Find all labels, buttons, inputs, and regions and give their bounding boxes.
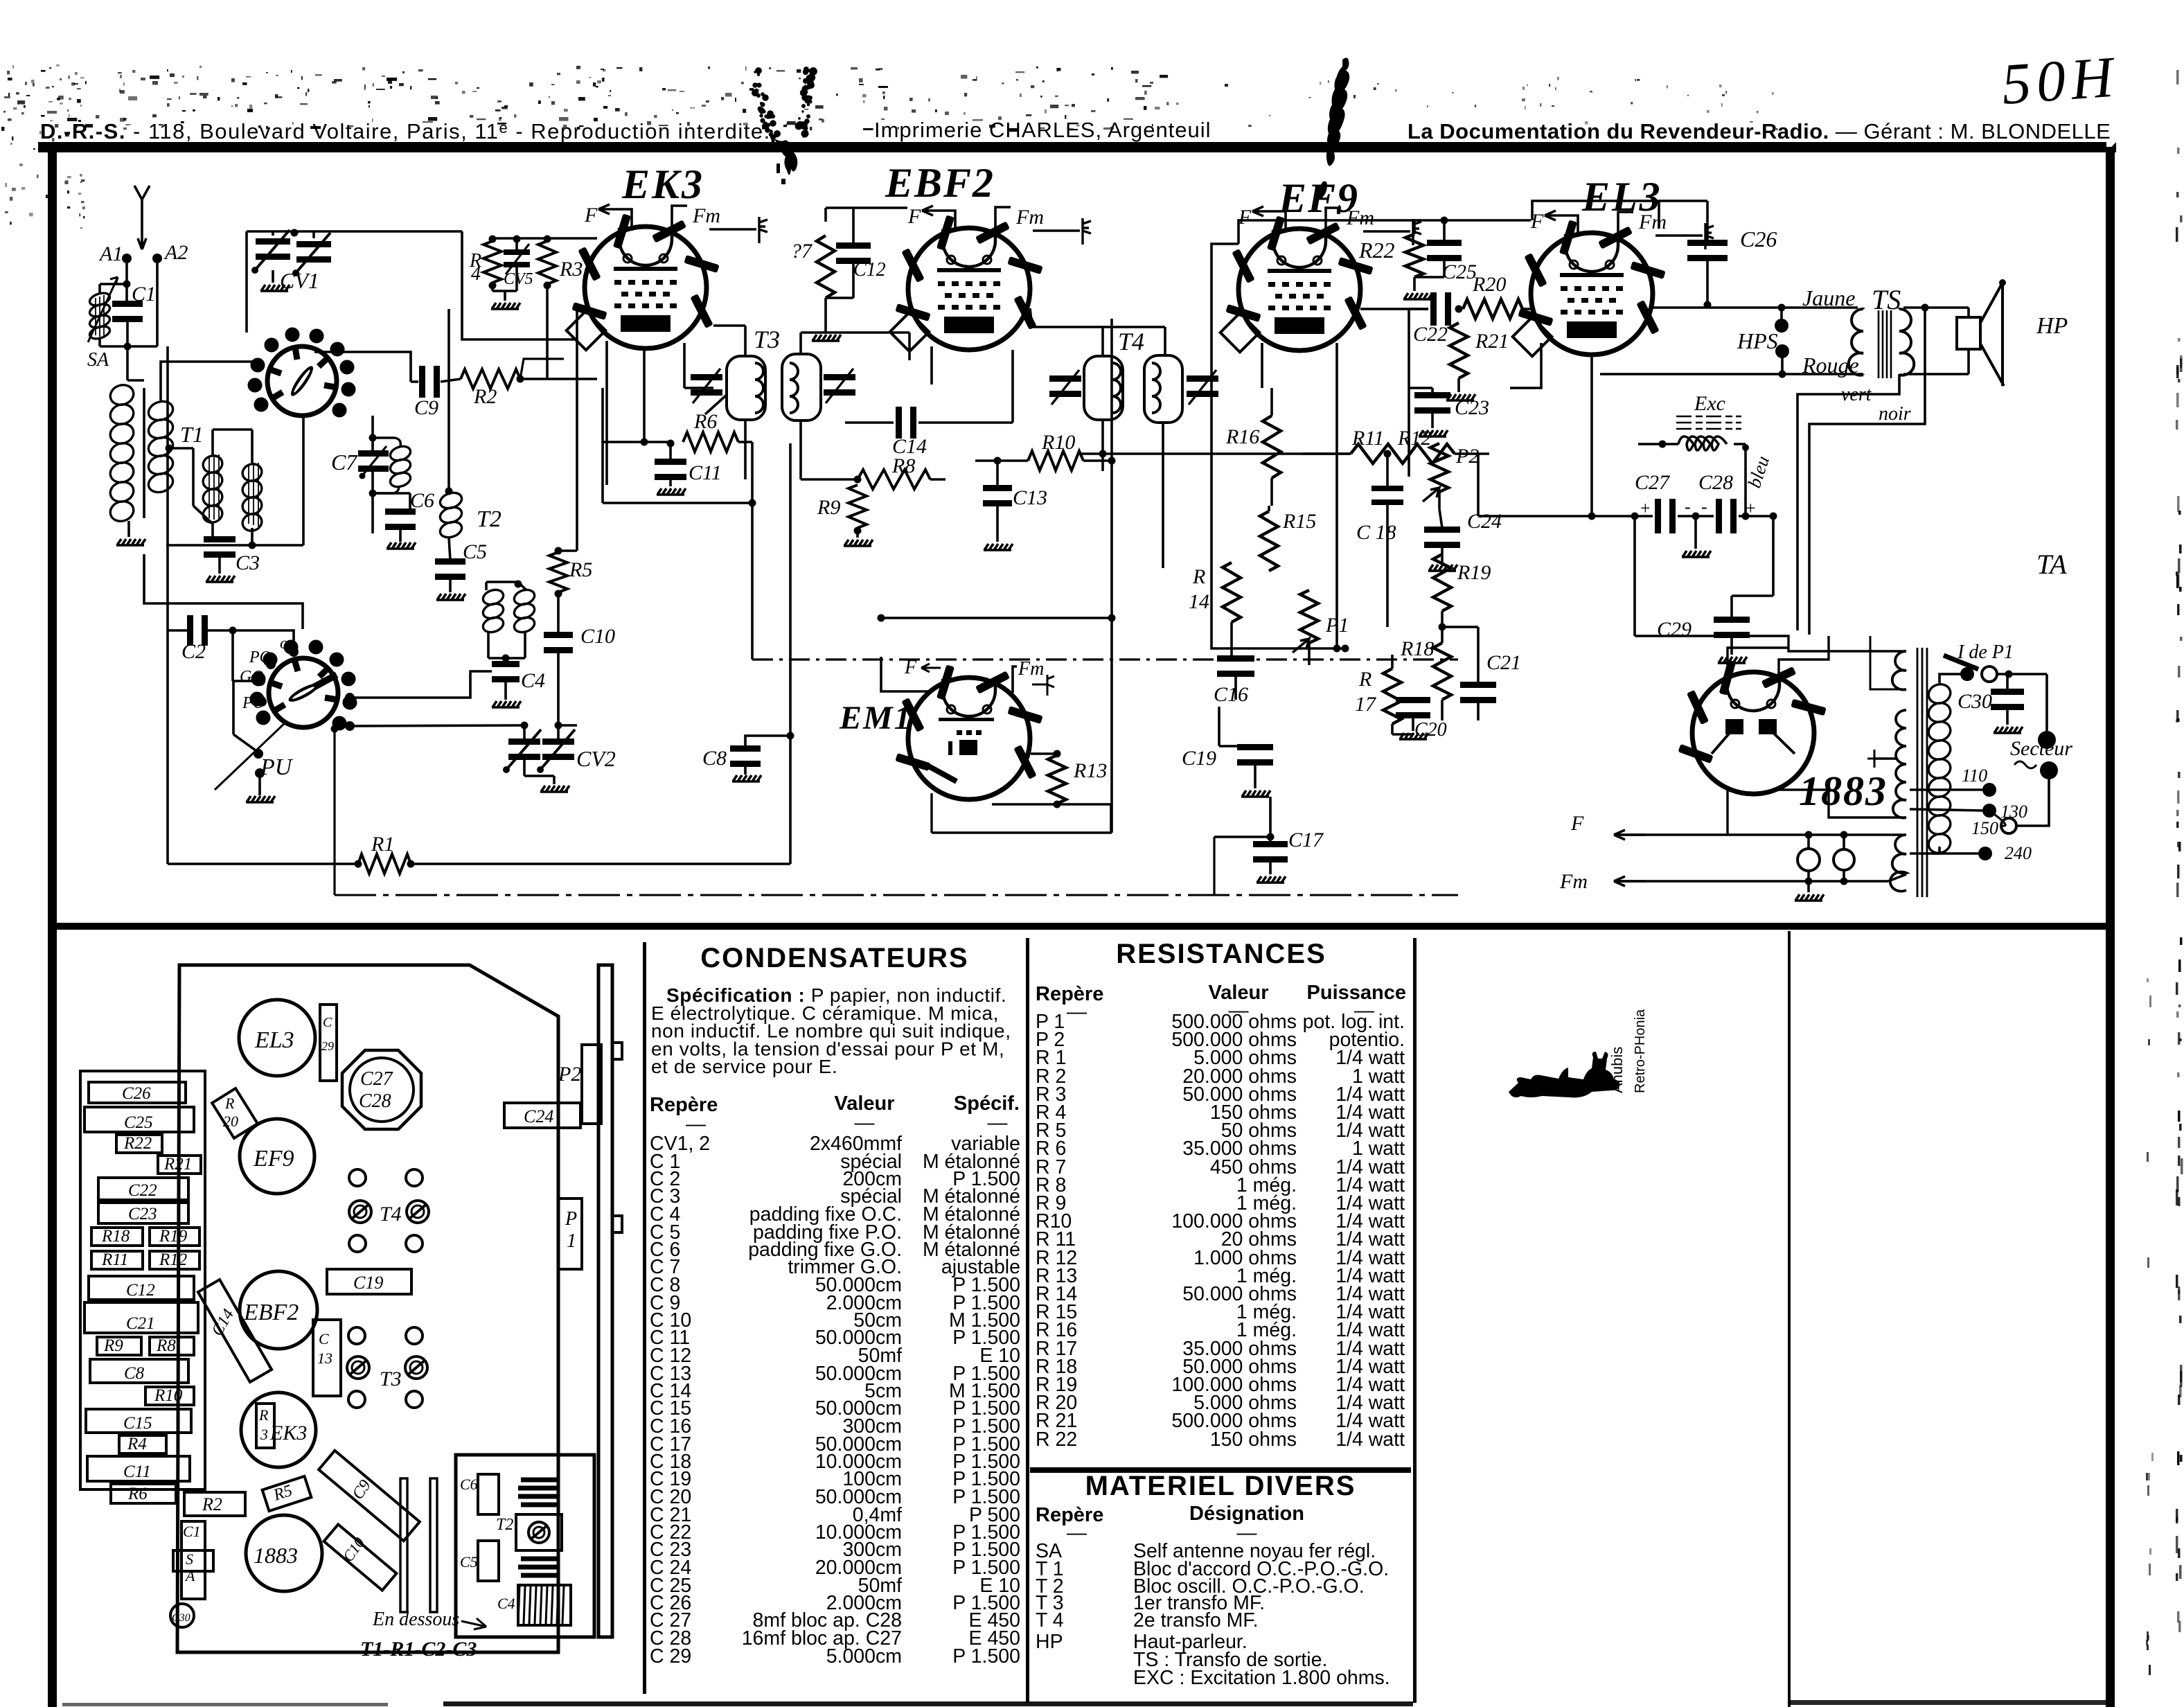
wire Fm bracket	[672, 206, 687, 233]
antenna	[134, 186, 150, 249]
svg-text:Fm: Fm	[1346, 206, 1374, 229]
tube EF9 (U3)	[1220, 215, 1374, 352]
chassis part C26	[89, 1082, 186, 1103]
svg-text:R5: R5	[569, 558, 592, 581]
wire EK3 cathode down	[643, 348, 646, 442]
svg-text:1883: 1883	[1799, 768, 1888, 814]
chassis part C21	[85, 1302, 198, 1333]
svg-text:P2: P2	[558, 1063, 581, 1086]
wire R22 C25	[1413, 220, 1416, 234]
svg-text:RESISTANCES: RESISTANCES	[1116, 939, 1326, 969]
wire y871 loop	[144, 554, 303, 629]
chassis part R9	[97, 1337, 141, 1355]
svg-text:A2: A2	[163, 241, 188, 264]
wire EM1 F	[881, 657, 930, 691]
chassis part R4	[119, 1435, 166, 1453]
svg-text:EBF2: EBF2	[885, 160, 995, 206]
svg-text:R: R	[1358, 668, 1371, 691]
field coil Exc core	[1676, 416, 1741, 429]
svg-text:20: 20	[223, 1113, 238, 1130]
frame top rule	[38, 142, 2116, 152]
svg-text:C: C	[323, 1015, 332, 1030]
table divider line 4	[1788, 931, 1791, 1707]
wire rotary2 right contacts	[345, 693, 355, 702]
wire return bus under T1	[166, 544, 303, 547]
terminal A1	[122, 254, 132, 263]
ground below C8	[744, 766, 747, 775]
chassis part R8	[150, 1337, 194, 1355]
chassis part C22	[98, 1178, 188, 1200]
capacitor C18 (series vertical)	[1371, 486, 1403, 491]
wire secteur to 150 tap	[2017, 779, 2049, 826]
wire HPS stubs	[1780, 308, 1783, 320]
svg-text:Fm: Fm	[1018, 658, 1044, 680]
svg-text:C5: C5	[460, 1553, 478, 1571]
svg-text:C1: C1	[132, 283, 156, 306]
ground below T1 primary	[127, 521, 130, 537]
T4 coil 2	[1152, 363, 1160, 413]
svg-text:C29: C29	[1657, 618, 1692, 641]
wire C14	[845, 421, 894, 424]
ground below R7	[824, 298, 827, 333]
table divider line 3	[1413, 938, 1417, 1703]
wire vertical x1605 long	[1110, 319, 1113, 833]
chassis part C15	[86, 1409, 191, 1433]
wire EK3 grid loop vertical	[601, 388, 604, 503]
capacitor C21	[1460, 682, 1496, 688]
TA HT secondary top coil	[1892, 651, 1906, 690]
svg-text:A1: A1	[98, 242, 123, 265]
svg-text:Rouge: Rouge	[1802, 353, 1859, 378]
TA primary coil	[1926, 682, 1953, 856]
terminals HPS	[1775, 319, 1788, 333]
wire CV1 top bus	[247, 230, 294, 233]
capacitor C13	[983, 485, 1012, 491]
resistor R15	[1260, 511, 1278, 571]
svg-text:R15: R15	[1282, 510, 1316, 533]
svg-text:C26: C26	[122, 1084, 151, 1103]
wire T3 to EBF2	[908, 333, 911, 360]
rail tab 1	[612, 1043, 622, 1059]
ground below C17	[1269, 861, 1272, 874]
IF transformer T4 pocket 2	[1144, 355, 1182, 423]
Anubis Retro-PHonia stamp silhouette	[1509, 1052, 1619, 1097]
svg-text:—: —	[1067, 1522, 1087, 1544]
resistor R13	[1048, 755, 1066, 804]
svg-text:Retro-PHonia: Retro-PHonia	[1633, 1009, 1648, 1093]
svg-text:La Documentation du Revendeur-: La Documentation du Revendeur-Radio. — G…	[1408, 119, 2111, 143]
chassis part R6	[111, 1484, 176, 1503]
svg-text:noir: noir	[1879, 403, 1911, 425]
T4 coil 1	[1112, 363, 1121, 413]
svg-text:R19: R19	[159, 1227, 188, 1246]
ground below C19	[1254, 765, 1257, 788]
chassis part R12	[150, 1251, 199, 1269]
bus wire y=655 left part	[1302, 452, 1351, 455]
wire C18 vertical	[1386, 454, 1389, 486]
wire R4 R3 top bus	[492, 237, 597, 240]
svg-text:Imprimerie CHARLES, Argenteuil: Imprimerie CHARLES, Argenteuil	[874, 118, 1211, 142]
wire R14 R15 P1	[1268, 506, 1270, 511]
chassis C4 block hatched	[518, 1585, 571, 1625]
svg-text:C23: C23	[128, 1205, 157, 1223]
filament bus F	[1614, 833, 1906, 836]
frame left border	[48, 151, 57, 1707]
capacitor C3	[204, 536, 236, 542]
svg-text:240: 240	[2005, 843, 2032, 863]
wire noir	[1809, 308, 1925, 635]
chassis C9 diagonal	[319, 1451, 420, 1541]
svg-text:C 18: C 18	[1356, 521, 1396, 544]
wire EM1 bottom left	[930, 793, 932, 833]
svg-text:C22: C22	[128, 1181, 157, 1200]
wire F to pin	[950, 211, 955, 232]
svg-text:C7: C7	[331, 450, 358, 475]
svg-text:CV5: CV5	[504, 270, 533, 288]
grid-cap mark right of tube	[709, 217, 767, 243]
svg-text:1: 1	[567, 1230, 576, 1252]
wire T3 tops	[744, 326, 747, 356]
bottom scan edge	[443, 1701, 1413, 1706]
resistor R20	[1463, 299, 1522, 319]
wire R5 top	[555, 547, 562, 555]
ground filament	[1807, 881, 1810, 892]
wire R17 C20	[1391, 655, 1394, 669]
capacitor C11	[655, 459, 686, 465]
wire EF9 plate to C22	[1360, 308, 1428, 310]
svg-text:F: F	[584, 204, 598, 227]
svg-text:En dessous: En dessous	[372, 1609, 459, 1630]
svg-text:C10: C10	[580, 625, 615, 648]
svg-text:Anubis: Anubis	[1608, 1047, 1626, 1093]
wire EF9 top bus	[1239, 220, 1414, 244]
coil T1 primary	[108, 382, 136, 524]
svg-text:C25: C25	[1442, 260, 1477, 283]
wire EK3 right pin to T3	[705, 395, 727, 414]
svg-text:C25: C25	[124, 1113, 153, 1132]
svg-text:A: A	[184, 1567, 195, 1584]
chassis T2 square	[516, 1514, 562, 1550]
chassis spring 2	[518, 1559, 560, 1575]
T3 coil 1	[755, 363, 763, 413]
svg-text:PU: PU	[260, 754, 294, 780]
capacitor C20	[1396, 697, 1430, 703]
capacitor C27	[1655, 499, 1661, 533]
ground below C5	[449, 578, 452, 592]
ground below C4	[504, 680, 507, 700]
svg-text:R11: R11	[101, 1250, 128, 1269]
trimmer C7	[358, 450, 389, 457]
svg-text:C24: C24	[1467, 510, 1502, 533]
T3 trimmer 2	[824, 374, 855, 380]
svg-text:F: F	[1238, 206, 1252, 229]
svg-text:SA: SA	[87, 349, 109, 371]
svg-text:F: F	[1570, 812, 1584, 835]
svg-text:C17: C17	[1288, 829, 1324, 851]
chassis outline	[177, 965, 558, 1652]
svg-text:C30: C30	[172, 1612, 190, 1624]
resistor R18	[1433, 643, 1451, 700]
svg-text:—: —	[988, 1112, 1008, 1134]
long bus y892	[881, 617, 1112, 619]
lower return bus vertical	[333, 729, 335, 895]
svg-text:et de service pour E.: et de service pour E.	[651, 1056, 837, 1077]
wire x242 long vertical	[166, 346, 169, 864]
coil T1 secondary	[146, 398, 175, 495]
svg-text:—: —	[855, 1112, 875, 1134]
svg-text:150: 150	[1971, 818, 1998, 838]
wire F to pin	[1280, 211, 1286, 233]
speaker HP driver	[1957, 317, 1980, 349]
svg-text:TA: TA	[2036, 549, 2067, 580]
chassis C5 box	[478, 1541, 499, 1581]
chassis R3 inside EK3	[256, 1404, 274, 1448]
svg-text:C4: C4	[497, 1595, 515, 1612]
capacitor C25	[1427, 240, 1462, 246]
resistor R19	[1433, 554, 1451, 611]
chassis C19 box	[327, 1269, 411, 1294]
svg-text:C27: C27	[1635, 471, 1671, 494]
resistor R3	[538, 241, 556, 284]
ground below C3	[218, 556, 221, 574]
tube 1883 (rectifier)	[1678, 660, 1826, 794]
wire T2 vertical	[447, 309, 450, 493]
wire R5 to C10	[555, 590, 562, 598]
ground below C20	[1412, 717, 1414, 731]
long bus y952 dash-dot	[752, 658, 1458, 660]
wire EM1 to R13	[1031, 752, 1057, 755]
svg-text:C28: C28	[1698, 471, 1733, 494]
switch I de P1	[1960, 667, 1974, 681]
grid-cap mark EM1	[1032, 675, 1054, 696]
wire P2 C24	[1438, 492, 1441, 509]
wire TA secondary to 1883 bottom	[1870, 636, 1906, 689]
svg-text:C11: C11	[123, 1462, 151, 1481]
svg-text:R20: R20	[1472, 273, 1506, 296]
right edge scan dashes	[2176, 1275, 2178, 1288]
wire EL3 bottom to bus	[1590, 355, 1593, 516]
wire T2 secondary tops	[485, 582, 488, 590]
resistor R2	[461, 369, 520, 389]
svg-text:1/4 watt: 1/4 watt	[1335, 1429, 1405, 1451]
resistor R17	[1383, 669, 1401, 724]
svg-text:R9: R9	[103, 1336, 123, 1355]
svg-text:T2: T2	[496, 1516, 513, 1534]
TA filament coil	[1890, 835, 1906, 892]
svg-text:C12: C12	[853, 259, 886, 281]
wire TA primary bottom	[1933, 847, 1939, 853]
TA core	[1917, 648, 1927, 897]
wire TA primary top	[1939, 674, 1965, 683]
resistor R11 R12	[1351, 444, 1455, 463]
svg-text:R3: R3	[559, 258, 583, 281]
svg-text:C1: C1	[183, 1523, 201, 1540]
svg-text:R13: R13	[1073, 759, 1107, 782]
svg-text:C28: C28	[359, 1090, 391, 1112]
resistor R9	[849, 485, 867, 528]
chassis part R10	[145, 1387, 194, 1405]
terminal secteur upper	[2045, 674, 2048, 734]
ground below C11	[669, 479, 672, 486]
frame right border	[2106, 147, 2115, 1707]
wire R1 bus	[168, 863, 358, 865]
resistor R8	[858, 470, 930, 489]
svg-text:C13: C13	[1013, 486, 1047, 509]
svg-text:C21: C21	[126, 1314, 155, 1333]
svg-text:R8: R8	[156, 1336, 176, 1355]
chassis tube EF9	[240, 1119, 314, 1194]
terminal secteur lower	[2040, 761, 2058, 779]
svg-text:R22: R22	[1358, 238, 1395, 263]
chassis spring 1	[518, 1480, 560, 1505]
wire x1753 vertical	[1213, 837, 1215, 895]
resistor R16	[1263, 416, 1281, 478]
wire Fm bracket	[1326, 208, 1341, 236]
resistor R1	[358, 854, 411, 874]
field coil Exc	[1678, 436, 1727, 450]
svg-text:C4: C4	[521, 669, 545, 692]
svg-text:R8: R8	[891, 454, 915, 477]
svg-text:R11: R11	[1351, 427, 1384, 450]
wire R11 left	[1081, 452, 1351, 455]
svg-text:R22: R22	[123, 1134, 152, 1153]
chassis C24 box	[504, 1103, 580, 1128]
capacitor C26	[1687, 240, 1728, 246]
svg-text:Fm: Fm	[692, 204, 720, 227]
capacitor C9 (series)	[419, 366, 425, 398]
wire EF9 left loop	[1211, 244, 1345, 648]
wire T2 secondary bottoms to C4	[487, 633, 490, 658]
capacitor C16	[1217, 655, 1254, 662]
svg-text:R9: R9	[817, 496, 840, 519]
ground below R21	[1457, 378, 1460, 392]
wire R6 right	[738, 441, 752, 443]
wire C8 top	[745, 736, 790, 748]
tube EM1 (magic eye)	[895, 664, 1042, 799]
wire C27 C28 bus	[1478, 515, 1653, 518]
chassis dial strips	[400, 1478, 407, 1612]
ground below C24	[1441, 546, 1444, 563]
svg-text:HP: HP	[1036, 1631, 1063, 1653]
wire C6 top	[409, 493, 411, 511]
chassis C27 C28 can	[342, 1050, 421, 1129]
wire EF9 bottom pins	[1261, 343, 1263, 388]
capacitor C22 (series)	[1430, 292, 1437, 326]
chassis tube 1883	[246, 1515, 322, 1591]
svg-text:4: 4	[471, 263, 481, 285]
variable capacitor CV2 b	[542, 738, 574, 745]
wire C9-R2	[441, 379, 461, 382]
chassis part C11	[87, 1456, 190, 1481]
chassis tube EBF2	[240, 1271, 317, 1349]
svg-text:C5: C5	[463, 540, 487, 563]
svg-text:P2: P2	[1455, 445, 1479, 468]
rotary switch 2 lever line	[215, 723, 285, 790]
svg-text:CV2: CV2	[576, 746, 616, 771]
ink streak near La Documentation	[1326, 58, 1349, 166]
IF transformer T3 pocket 1	[727, 356, 765, 420]
T3 trimmer 1	[691, 374, 722, 380]
svg-text:R6: R6	[127, 1485, 148, 1503]
chassis C6 box	[478, 1474, 499, 1514]
wire bus y1208	[1214, 835, 1270, 838]
ground below R9	[854, 527, 862, 535]
svg-text:-: -	[1685, 497, 1691, 517]
chassis tuner box	[456, 1455, 594, 1637]
wire 1883 top plates	[1635, 636, 1906, 651]
variable capacitor CV2 a	[508, 738, 540, 745]
ground below R22	[1413, 277, 1416, 291]
svg-text:T3: T3	[380, 1368, 402, 1390]
capacitor C2 (series)	[187, 615, 193, 646]
svg-text:C9: C9	[414, 396, 438, 419]
IF transformer T3 pocket 2	[782, 354, 821, 421]
coil osc C7 parallel	[373, 438, 400, 493]
variable capacitor CV1 section b	[296, 241, 331, 247]
wire bus to EK3 grid cap	[462, 231, 576, 339]
TA centre tap	[1874, 757, 1896, 760]
chassis C30 grommet	[170, 1604, 194, 1627]
terminal A2	[152, 254, 162, 263]
svg-text:C8: C8	[124, 1364, 145, 1383]
tube EK3 (U1)	[567, 213, 720, 350]
coil T2 secondary b	[513, 587, 537, 635]
svg-text:C22: C22	[1413, 323, 1448, 346]
wire Exc ends	[1662, 443, 1678, 445]
capacitor C5	[435, 558, 465, 565]
wire T1 secondary top	[161, 362, 260, 400]
chassis tube EL3	[239, 1000, 315, 1076]
coil T1 winding 3 (iron core)	[201, 453, 224, 524]
wire Fm bracket	[995, 207, 1011, 235]
svg-text:R1: R1	[371, 833, 394, 856]
svg-text:C19: C19	[353, 1273, 383, 1293]
svg-text:5.000cm: 5.000cm	[826, 1645, 902, 1668]
dashed bus y1292	[335, 894, 1458, 896]
svg-text:C27: C27	[360, 1068, 393, 1090]
svg-text:-: -	[1701, 497, 1707, 517]
potentiometer P2	[1430, 443, 1448, 492]
TA tap 130	[1910, 809, 1982, 811]
divider between schematic and tables	[57, 923, 2106, 930]
TA HT secondary main coil	[1893, 710, 1906, 817]
chassis part R11	[91, 1251, 143, 1269]
svg-text:EXC : Excitation 1.800 ohms.: EXC : Excitation 1.800 ohms.	[1133, 1667, 1390, 1689]
rule above MATERIEL DIVERS	[1030, 1467, 1411, 1473]
wire C17 up	[1269, 797, 1272, 843]
wire TS top to speaker	[1903, 306, 1969, 309]
svg-text:C8: C8	[702, 747, 727, 770]
svg-text:Jaune: Jaune	[1802, 285, 1855, 310]
svg-text:C12: C12	[126, 1281, 155, 1300]
output transformer TS primary coil	[1849, 309, 1863, 375]
wire C19 junction	[1219, 745, 1255, 748]
svg-text:C30: C30	[1957, 690, 1992, 713]
svg-text:C24: C24	[524, 1106, 553, 1126]
rail tab 2	[612, 1216, 622, 1232]
T3 coil 2	[790, 363, 798, 413]
scan noise speckle band top	[382, 76, 385, 77]
wire EK3 bottom pins	[605, 341, 608, 485]
svg-text:HPS: HPS	[1737, 328, 1778, 353]
wire vert	[1797, 375, 1899, 630]
svg-text:R10: R10	[1041, 431, 1075, 454]
chassis tube EK3	[241, 1392, 316, 1467]
output transformer TS core	[1879, 310, 1891, 378]
wire T1 windings to C3	[211, 430, 214, 456]
pilot lamp 1	[1797, 849, 1820, 871]
svg-text:P: P	[565, 1208, 577, 1230]
